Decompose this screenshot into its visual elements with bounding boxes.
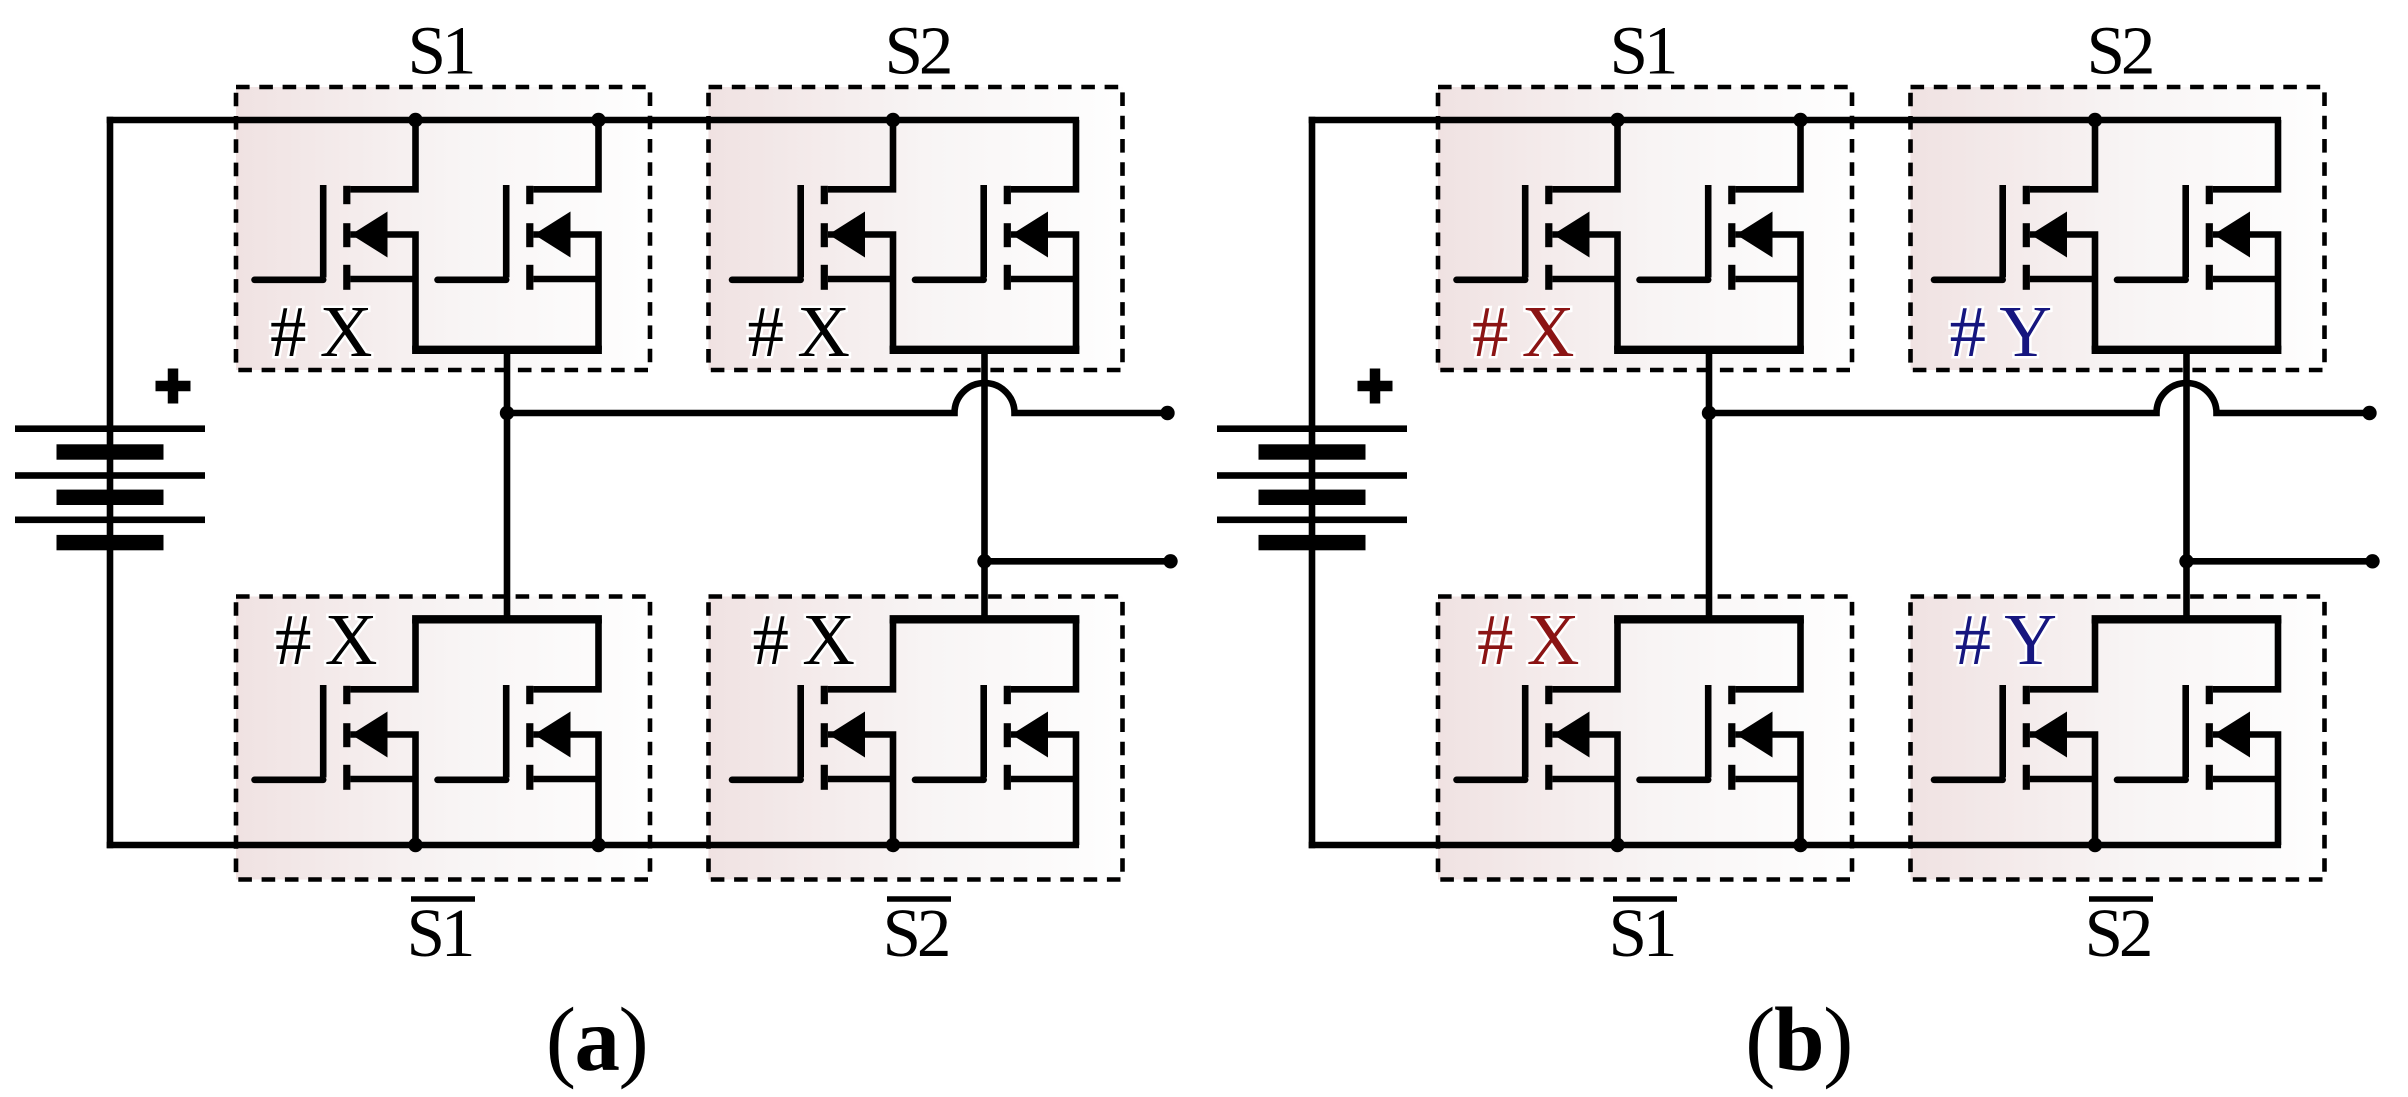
transistor S1-Q1 b (N-MOSFET) xyxy=(1457,120,1618,350)
svg-text:S1: S1 xyxy=(407,895,472,971)
switch module box S2 (b) xyxy=(1911,87,2325,370)
overline of S1̅ (a) xyxy=(411,896,475,902)
plus sign (battery polarity, a) xyxy=(156,369,191,404)
wire: common drain bus of S1b (a) xyxy=(412,615,602,623)
wire: common drain bus of S1b (b) xyxy=(1614,615,1804,623)
transistor S1-Q2 a (N-MOSFET) xyxy=(438,120,599,350)
node: leg B / output 2 junction (b) xyxy=(2179,554,2193,568)
overline of S1̅ (b) xyxy=(1613,896,1677,902)
wire: phase leg A vertical (a) xyxy=(504,350,511,620)
switch module box S1 (b) xyxy=(1438,87,1852,370)
wire: output line 2 (a) xyxy=(985,558,1171,565)
svg-text:# Y: # Y xyxy=(1955,599,2056,680)
node: S2-Q1 rail junction (b) xyxy=(2088,113,2102,127)
transistor S2b-Q2 b (N-MOSFET) xyxy=(2117,619,2278,845)
node: S1b-Q2 rail junction (a) xyxy=(591,838,605,852)
svg-text:(a): (a) xyxy=(546,989,648,1090)
wire: bottom negative rail (a) xyxy=(107,842,1079,849)
svg-text:# X: # X xyxy=(1472,291,1574,372)
plus sign (battery polarity, b) xyxy=(1358,369,1393,404)
node: S1b-Q1 rail junction (b) xyxy=(1610,838,1624,852)
overline of S2̅ (b) xyxy=(2089,896,2153,902)
node: output terminal 2 (b) xyxy=(2365,554,2379,568)
transistor S2-Q2 b (N-MOSFET) xyxy=(2117,120,2278,350)
node: output terminal 2 (a) xyxy=(1163,554,1177,568)
wire: common source bus of S2 (b) xyxy=(2092,346,2282,354)
node: S1-Q1 rail junction (b) xyxy=(1610,113,1624,127)
switch module box S1b (b) xyxy=(1438,597,1852,880)
node: S1b-Q2 rail junction (b) xyxy=(1793,838,1807,852)
transistor S1-Q1 a (N-MOSFET) xyxy=(255,120,416,350)
svg-text:S1: S1 xyxy=(1609,895,1674,971)
node: output terminal 1 (a) xyxy=(1160,406,1174,420)
node: leg B / output 2 junction (a) xyxy=(977,554,991,568)
svg-text:# X: # X xyxy=(748,291,850,372)
transistor S2-Q1 a (N-MOSFET) xyxy=(732,120,893,350)
overline of S2̅ (a) xyxy=(887,896,951,902)
wire: top positive rail (a) xyxy=(107,117,1079,124)
transistor S1b-Q1 b (N-MOSFET) xyxy=(1457,619,1618,845)
node: S1-Q2 rail junction (a) xyxy=(591,113,605,127)
node: S2b-Q1 rail junction (b) xyxy=(2088,838,2102,852)
switch module box S2b (b) xyxy=(1911,597,2325,880)
node: leg A / output 1 junction (b) xyxy=(1702,406,1716,420)
transistor S1-Q2 b (N-MOSFET) xyxy=(1640,120,1801,350)
wire: common source bus of S2 (a) xyxy=(890,346,1080,354)
svg-text:S2: S2 xyxy=(2085,895,2150,971)
wire: battery negative lead (b) xyxy=(1309,543,1316,848)
transistor S2b-Q2 a (N-MOSFET) xyxy=(915,619,1076,845)
wire: bottom negative rail (b) xyxy=(1309,842,2281,849)
wire: battery positive lead / left vertical (a) xyxy=(107,117,114,428)
wire: phase leg B vertical (a) xyxy=(981,350,988,620)
node: S2-Q1 rail junction (a) xyxy=(886,113,900,127)
node: output terminal 1 (b) xyxy=(2362,406,2376,420)
battery Bb (DC source) xyxy=(1217,425,1407,550)
transistor S2b-Q1 b (N-MOSFET) xyxy=(1934,619,2095,845)
wire: output line 1 with hop over leg B (b) xyxy=(1709,383,2370,413)
node: S1-Q2 rail junction (b) xyxy=(1793,113,1807,127)
wire: common drain bus of S2b (b) xyxy=(2092,615,2282,623)
svg-text:# X: # X xyxy=(270,291,372,372)
svg-text:(b): (b) xyxy=(1745,989,1852,1090)
svg-text:S1: S1 xyxy=(1610,13,1675,89)
switch module box S1 (a) xyxy=(236,87,650,370)
transistor S1b-Q1 a (N-MOSFET) xyxy=(255,619,416,845)
wire: top positive rail (b) xyxy=(1309,117,2281,124)
transistor S2-Q2 a (N-MOSFET) xyxy=(915,120,1076,350)
wire: output line 2 (b) xyxy=(2187,558,2373,565)
wire: battery positive lead / left vertical (b) xyxy=(1309,117,1316,428)
wire: battery negative lead (a) xyxy=(107,543,114,848)
wire: output line 1 with hop over leg B (a) xyxy=(507,383,1168,413)
node: S1-Q1 rail junction (a) xyxy=(408,113,422,127)
transistor S2-Q1 b (N-MOSFET) xyxy=(1934,120,2095,350)
switch module box S1b (a) xyxy=(236,597,650,880)
node: S2b-Q1 rail junction (a) xyxy=(886,838,900,852)
svg-text:S2: S2 xyxy=(885,13,950,89)
svg-text:# X: # X xyxy=(275,599,377,680)
switch module box S2 (a) xyxy=(709,87,1123,370)
svg-text:S2: S2 xyxy=(883,895,948,971)
transistor S1b-Q2 b (N-MOSFET) xyxy=(1640,619,1801,845)
wire: common drain bus of S2b (a) xyxy=(890,615,1080,623)
wire: phase leg A vertical (b) xyxy=(1706,350,1713,620)
wire: phase leg B vertical (b) xyxy=(2183,350,2190,620)
node: S1b-Q1 rail junction (a) xyxy=(408,838,422,852)
battery Ba (DC source) xyxy=(15,425,205,550)
transistor S1b-Q2 a (N-MOSFET) xyxy=(438,619,599,845)
svg-text:S1: S1 xyxy=(408,13,473,89)
svg-text:# X: # X xyxy=(753,599,855,680)
wire: common source bus of S1 (a) xyxy=(412,346,602,354)
svg-text:# X: # X xyxy=(1477,599,1579,680)
svg-text:S2: S2 xyxy=(2087,13,2152,89)
transistor S2b-Q1 a (N-MOSFET) xyxy=(732,619,893,845)
svg-text:# Y: # Y xyxy=(1950,291,2051,372)
switch module box S2b (a) xyxy=(709,597,1123,880)
wire: common source bus of S1 (b) xyxy=(1614,346,1804,354)
node: leg A / output 1 junction (a) xyxy=(500,406,514,420)
